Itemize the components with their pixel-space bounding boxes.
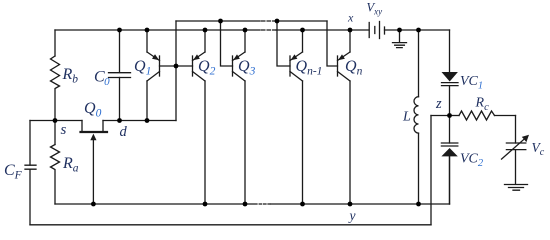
svg-text:Vc: Vc xyxy=(532,140,545,158)
variable capacitor Vc arrow xyxy=(502,138,527,160)
transistor Q0 gate wire xyxy=(92,140,94,205)
transistor Qn lower lead xyxy=(349,81,351,204)
node Q1Q2-base junction xyxy=(174,64,179,69)
inductor L upper wire xyxy=(418,30,420,97)
svg-text:VC2: VC2 xyxy=(460,152,484,169)
transistor Q1 emitter arrowhead xyxy=(152,54,159,60)
transistor Q3 collector diagonal xyxy=(233,72,246,82)
node Q2-railB junction xyxy=(203,28,208,33)
wire y rail dashed continuation xyxy=(259,203,270,205)
varactor VC1 capacitor bars xyxy=(442,83,459,86)
svg-text:y: y xyxy=(348,208,356,223)
transistor Q1 emitter diagonal xyxy=(147,52,160,61)
svg-text:Rb: Rb xyxy=(62,66,79,86)
transistor Qn-1 upper lead xyxy=(302,30,304,52)
ground G1 stem (after battery) xyxy=(399,30,401,42)
wire y rail (emitter bus, y=204) xyxy=(55,203,450,205)
node gate-y junction xyxy=(91,202,96,207)
node C0-railB junction xyxy=(117,28,122,33)
transistor Q0 gate arrowhead xyxy=(90,134,96,141)
svg-text:Qn-1: Qn-1 xyxy=(296,58,323,78)
node Q1-railB junction xyxy=(145,28,150,33)
transistor Qn emitter arrowhead xyxy=(338,54,345,60)
svg-text:L: L xyxy=(402,110,411,125)
svg-text:z: z xyxy=(435,96,442,112)
varactor VC2 top wire (from z) xyxy=(449,116,451,144)
inductor L lower wire xyxy=(418,133,420,204)
variable capacitor Vc top wire xyxy=(515,116,517,144)
svg-text:Q2: Q2 xyxy=(198,58,216,78)
resistor Rc right wire xyxy=(495,115,516,117)
battery Vxy plate 3 (long) xyxy=(379,22,381,39)
varactor VC2 diode triangle xyxy=(441,148,457,156)
transistor Qn upper lead to node x xyxy=(349,30,351,52)
node x junction xyxy=(348,28,353,33)
varactor VC2 capacitor bars xyxy=(441,143,457,146)
transistor Qn-1 base drop from rail A xyxy=(277,21,290,66)
resistor Ra xyxy=(51,145,60,205)
varactor VC1 bottom wire to z xyxy=(449,86,451,116)
node z junction xyxy=(447,113,452,118)
capacitor CF bottom wire xyxy=(29,169,31,225)
resistor Rb xyxy=(51,56,60,121)
wire z left segment xyxy=(431,115,450,117)
transistor Q2 collector diagonal xyxy=(193,72,206,82)
wire outer feedback bottom xyxy=(30,224,431,226)
transistor Q2 lower lead xyxy=(204,81,206,204)
svg-text:d: d xyxy=(120,124,128,140)
transistor Qn-1 emitter diagonal xyxy=(290,52,303,61)
variable capacitor Vc bottom wire xyxy=(515,150,517,184)
transistor Qn-1 bar xyxy=(289,56,291,76)
transistor Q3 emitter arrowhead xyxy=(233,54,240,60)
transistor Q1 upper lead xyxy=(146,30,148,52)
inductor L coil xyxy=(414,97,419,133)
transistor Q2 (right-facing) bar xyxy=(192,56,194,76)
resistor Rc zigzag xyxy=(459,111,495,120)
svg-text:Q1: Q1 xyxy=(134,58,151,78)
node Qn-1-y junction xyxy=(300,202,305,207)
battery Vxy plate 2 (short) xyxy=(374,27,376,34)
battery Vxy plate 1 (long) xyxy=(368,23,370,38)
varactor VC1 diode triangle xyxy=(442,72,458,82)
ground G1 hatches xyxy=(393,43,407,48)
transistor Qn-1 emitter arrowhead xyxy=(291,54,298,60)
transistor Qn emitter diagonal xyxy=(338,52,351,61)
transistor Q1 lower lead xyxy=(146,81,148,121)
wire outer feedback right vertical xyxy=(430,116,432,225)
capacitor CF branch top wire xyxy=(29,121,31,166)
node Q3-y junction xyxy=(243,202,248,207)
node C0-d junction xyxy=(117,118,122,123)
wire rail B (collector bus, y=30) xyxy=(55,29,450,31)
svg-text:x: x xyxy=(347,11,354,25)
node Qn-y junction xyxy=(348,202,353,207)
variable capacitor Vc arrowhead xyxy=(522,135,529,142)
svg-text:s: s xyxy=(61,122,67,138)
capacitor CF plates xyxy=(25,165,36,169)
svg-text:VC1: VC1 xyxy=(460,74,483,91)
svg-text:Rc: Rc xyxy=(475,96,490,113)
wire rail A dashed continuation xyxy=(262,20,277,22)
node L-railB junction xyxy=(416,28,421,33)
node L-y junction xyxy=(416,202,421,207)
varactor VC1 top wire (from rail B corner) xyxy=(449,30,451,72)
wire left vertical top (rail B corner down to Rb) xyxy=(54,30,56,56)
svg-text:Q0: Q0 xyxy=(84,100,102,120)
transistor Q1 base wire xyxy=(160,65,177,67)
transistor Q1 (left-facing) bar xyxy=(159,56,161,76)
node Qn-1-railA junction xyxy=(275,19,280,24)
node Q1-d junction xyxy=(145,118,150,123)
svg-text:Qn: Qn xyxy=(345,58,363,78)
node Qn-1-railB junction xyxy=(300,28,305,33)
wire rail B dashed continuation xyxy=(262,29,277,31)
capacitor C0 branch upper wire xyxy=(119,30,121,73)
node Q2-y junction xyxy=(203,202,208,207)
svg-text:Ra: Ra xyxy=(62,155,79,175)
svg-text:Q3: Q3 xyxy=(238,58,256,78)
wire s/d row (s wire from CF corner to Q0) xyxy=(30,120,82,122)
transistor Q0 drain step xyxy=(102,121,104,132)
resistor Rc left wire xyxy=(450,115,460,117)
node Q3-railB junction xyxy=(243,28,248,33)
node Q3-railA junction xyxy=(218,19,223,24)
capacitor C0 branch lower wire xyxy=(119,78,121,121)
node ground-railB junction xyxy=(397,28,402,33)
variable capacitor Vc plates xyxy=(506,143,525,150)
capacitor C0 plates xyxy=(109,73,131,78)
transistor Q3 emitter diagonal xyxy=(233,52,246,61)
svg-text:CF: CF xyxy=(4,162,23,182)
transistor Q1 collector diagonal xyxy=(147,72,160,82)
wire base-bus drop (x=176, rail A end down to d wire) xyxy=(175,21,177,121)
battery Vxy plate 4 (short) xyxy=(384,27,386,34)
transistor Q0 channel bar xyxy=(81,131,108,133)
transistor Qn-1 collector diagonal xyxy=(290,72,303,82)
varactor VC2 bottom wire xyxy=(449,156,451,204)
transistor Q3 base drop from rail A xyxy=(221,21,233,66)
wire d row (Q0 drain to base-bus corner) xyxy=(103,120,176,122)
wire y rail right end up to VC2 xyxy=(449,156,451,204)
node s junction xyxy=(53,118,58,123)
transistor Q3 bar xyxy=(232,56,234,76)
transistor Qn bar xyxy=(337,56,339,76)
transistor Qn collector diagonal xyxy=(338,72,351,82)
transistor Q2 emitter diagonal xyxy=(193,52,206,61)
ground G2 hatches xyxy=(505,185,528,191)
transistor Q2 upper lead xyxy=(204,30,206,52)
transistor Q3 lower lead xyxy=(244,81,246,204)
transistor Q3 upper lead xyxy=(244,30,246,52)
svg-text:C0: C0 xyxy=(94,69,110,88)
transistor Q2 base wire xyxy=(176,65,193,67)
transistor Q2 emitter arrowhead xyxy=(193,54,200,60)
wire s junction to Ra xyxy=(54,121,56,145)
transistor Qn base drop from rail A end xyxy=(327,21,338,66)
wire rail A (base bus, y=21) xyxy=(176,20,327,22)
transistor Q0 (JFET) source step xyxy=(81,121,83,132)
svg-text:Vxy: Vxy xyxy=(367,1,383,17)
transistor Qn-1 lower lead xyxy=(302,81,304,204)
